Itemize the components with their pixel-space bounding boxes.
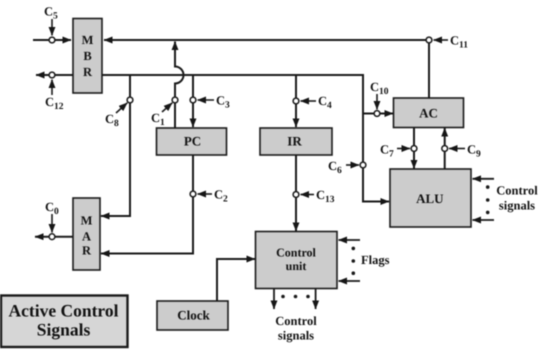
svg-text:Control: Control (276, 246, 316, 260)
svg-text:IR: IR (287, 133, 302, 148)
control unit bottom output arrows (274, 289, 316, 310)
wire: MAR left output (35, 236, 73, 238)
svg-text:A: A (82, 230, 91, 244)
wire: C11 circle down to AC top (428, 44, 430, 99)
control point C13 circle (293, 192, 299, 198)
control unit (256, 232, 338, 289)
wire: clock to control unit (217, 259, 255, 301)
svg-text:R: R (82, 244, 92, 258)
arrow C0 to circle (51, 214, 53, 233)
ALU control signal arrows (473, 179, 495, 220)
arrow C1 to circle (162, 103, 172, 112)
control point C1 circle (172, 97, 178, 103)
wire: top bus from MBR to C11 (104, 39, 429, 41)
svg-text:PC: PC (184, 133, 201, 148)
svg-text:Control: Control (496, 184, 538, 198)
svg-text:Active Control: Active Control (9, 301, 119, 321)
control point C6 circle (360, 162, 366, 168)
arrow C13 to circle (301, 194, 315, 196)
control point C8 circle (127, 97, 133, 103)
svg-text:Clock: Clock (177, 307, 210, 322)
svg-text:B: B (83, 49, 91, 63)
svg-text:signals: signals (499, 199, 535, 213)
svg-text:Control: Control (275, 314, 317, 328)
flags dots (352, 247, 356, 275)
control point C3 circle (190, 97, 196, 103)
svg-text:M: M (82, 33, 94, 47)
control point C5 circle (49, 37, 55, 43)
wire: PC output up to top bus with hop (175, 42, 184, 129)
arrow C6 to circle (346, 164, 359, 166)
control point C7 circle (411, 146, 417, 152)
svg-text:M: M (81, 214, 93, 228)
register PC (157, 128, 227, 155)
svg-text:signals: signals (278, 329, 314, 343)
arrow C12 to circle (51, 80, 53, 96)
clock (157, 301, 228, 330)
arrow C7 to circle (397, 148, 410, 150)
wire: bus into AC (C10 line) (363, 113, 393, 115)
arrow C8 to circle (116, 103, 127, 113)
register MBR (73, 19, 102, 94)
control point C0 circle (49, 234, 55, 240)
arrow C11 to circle (434, 39, 449, 41)
arrow C10 to circle (376, 94, 378, 110)
wire: IR down to control unit (C13 line) (295, 155, 297, 231)
arrow C2 to circle (198, 193, 213, 195)
ALU control signal dots (486, 185, 490, 214)
control point C9 circle (442, 146, 448, 152)
control point C12 circle (49, 72, 55, 78)
control point C11 circle (426, 37, 432, 43)
register MAR (73, 198, 100, 270)
wire: AC down to ALU (C7 line) (413, 128, 415, 169)
arrow C9 to circle (449, 148, 465, 150)
svg-text:R: R (83, 65, 93, 79)
svg-text:unit: unit (286, 259, 307, 273)
control point C10 circle (374, 111, 380, 117)
control point C2 circle (190, 191, 196, 197)
label Control signals (below control unit) (275, 314, 317, 343)
arrow C5 to circle (51, 19, 53, 36)
wire: bus down to MAR (C8 line) (101, 75, 130, 216)
wire: bus into PC (C3 line) (192, 75, 194, 127)
register AC (394, 98, 464, 128)
control signal dots bottom (281, 295, 310, 299)
wire: PC down to MAR (C2 line) (101, 155, 193, 254)
svg-text:AC: AC (419, 106, 438, 121)
svg-text:Flags: Flags (361, 253, 390, 267)
wire: into ALU left (362, 201, 389, 203)
wire: MBR left output segment (36, 74, 73, 76)
wire: second bus from MBR right to corner (102, 75, 363, 202)
register IR (260, 128, 332, 155)
arrow C3 to circle (198, 99, 215, 101)
flags input arrows into control unit (339, 240, 361, 281)
wire: ALU up to AC (C9 line) (444, 128, 446, 169)
svg-text:ALU: ALU (416, 191, 444, 206)
wire: bus into IR (C4 line) (295, 75, 297, 127)
label Control signals (right of ALU) (496, 184, 538, 213)
legend: Active Control Signals (1, 296, 128, 348)
svg-text:Signals: Signals (37, 320, 91, 340)
arrow C4 to circle (301, 100, 317, 102)
ALU (390, 169, 471, 227)
control point C4 circle (293, 98, 299, 104)
wire: top bus left input segment into MBR (33, 39, 71, 41)
